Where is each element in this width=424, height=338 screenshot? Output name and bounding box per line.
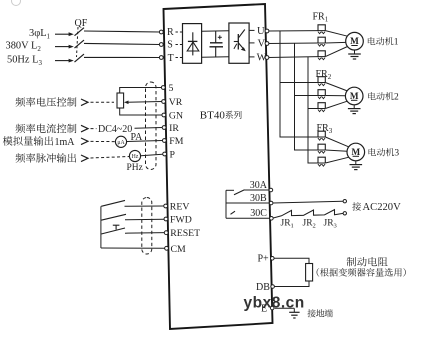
label 接地端 — [307, 309, 332, 317]
wire braking resistor to DB — [274, 281, 309, 287]
svg-text:BT40: BT40 — [200, 109, 226, 121]
svg-text:30A: 30A — [250, 180, 268, 191]
label 模拟量输出1mA — [3, 136, 76, 148]
svg-text:AC220V: AC220V — [363, 202, 402, 213]
svg-text:2: 2 — [394, 93, 399, 103]
wire W branch vertical — [308, 57, 318, 163]
label 电动机2 — [368, 92, 399, 103]
inverter unit BT40 block outline — [164, 4, 273, 329]
overload relay FR2 element phase W — [318, 103, 325, 112]
rectifier diode symbol — [187, 32, 199, 55]
terminal REV — [164, 202, 190, 213]
breaker QF pole 1 + wire to R — [55, 28, 160, 36]
terminal P — [163, 150, 176, 161]
terminal P+ — [271, 257, 275, 261]
svg-text:RESET: RESET — [170, 228, 200, 239]
motor M3 — [347, 143, 365, 161]
dashed line to ammeter PA — [91, 140, 116, 142]
potentiometer wiper to VR — [124, 101, 162, 105]
label BT40系列 — [200, 109, 242, 121]
potentiometer RP — [117, 93, 124, 108]
switch REV — [101, 200, 164, 206]
wire potentiometer bottom to GN — [120, 108, 162, 115]
terminal R — [159, 27, 183, 38]
svg-text:FM: FM — [169, 136, 183, 147]
overload relay FR1 element phase W — [318, 51, 325, 60]
label 接AC220V — [352, 202, 401, 213]
wire W branch to FR2 — [308, 108, 318, 110]
svg-text:M: M — [350, 36, 359, 46]
overload relay FR3 element phase V — [318, 144, 325, 153]
terminal AC220V upper — [343, 200, 346, 203]
wire W phase to FR1 — [268, 56, 318, 59]
terminal FWD — [164, 215, 192, 226]
wire PA to FM — [127, 141, 163, 142]
wire 30C through JR contacts — [273, 210, 343, 218]
terminal IR — [162, 123, 179, 134]
dashed line to DC4~20 — [91, 128, 97, 130]
wire PHz to P — [141, 154, 163, 156]
dashed line to frequency meter PHz — [91, 157, 130, 159]
svg-text:3: 3 — [394, 149, 399, 159]
svg-text:M: M — [350, 91, 359, 101]
terminal RESET — [164, 228, 200, 239]
wire FR1 to motor1 — [325, 31, 347, 57]
svg-text:FR1: FR1 — [313, 12, 329, 24]
svg-text:VR: VR — [169, 97, 183, 108]
ground motor2 — [348, 105, 361, 114]
svg-text:JR1: JR1 — [281, 219, 294, 230]
rectifier bridge box — [183, 24, 202, 64]
svg-text:REV: REV — [170, 202, 190, 213]
IGBT transistor symbol — [234, 30, 246, 52]
svg-text:U: U — [257, 26, 265, 37]
overload relay FR3 element phase U — [318, 131, 325, 140]
wire 30B — [226, 202, 269, 204]
svg-text:GN: GN — [169, 111, 183, 122]
terminal 5 — [161, 83, 173, 94]
ground motor1 — [348, 50, 361, 59]
wire DC bus top — [202, 30, 229, 32]
motor M2 — [345, 87, 363, 105]
earth ground symbol — [289, 308, 299, 318]
terminal GN — [162, 111, 183, 122]
svg-text:1mA: 1mA — [55, 137, 76, 148]
relay contact common bar — [225, 190, 227, 218]
switch FWD — [101, 214, 164, 220]
svg-text:μA: μA — [117, 140, 125, 146]
label 电动机1 — [368, 37, 399, 48]
inverter IGBT box — [229, 23, 249, 63]
label 制动电阻 — [347, 257, 388, 267]
svg-text:P+: P+ — [258, 254, 270, 265]
wire V branch vertical — [295, 43, 319, 150]
overload relay FR2 element phase U — [318, 77, 325, 86]
shielded cable symbol (dashed capsule, logic wires) — [142, 198, 152, 255]
motor M1 — [346, 32, 364, 50]
ammeter PA — [115, 136, 126, 147]
svg-text:ybx8.cn: ybx8.cn — [244, 294, 305, 311]
braking resistor RB — [306, 264, 313, 282]
svg-text:JR3: JR3 — [324, 219, 337, 230]
svg-text:JR2: JR2 — [303, 219, 316, 230]
overload relay FR1 element phase U — [318, 25, 325, 34]
wire terminal5 to potentiometer — [120, 88, 162, 94]
terminal VR — [162, 97, 183, 108]
svg-text:M: M — [351, 147, 360, 157]
svg-text:R: R — [167, 27, 174, 38]
terminal AC220V lower — [343, 212, 346, 215]
svg-text:DC4~20: DC4~20 — [98, 124, 132, 135]
wire P+ to braking resistor — [274, 258, 309, 263]
svg-text:Hz: Hz — [132, 154, 139, 160]
terminal U — [249, 26, 269, 37]
arrow marker for 频率电压控制 — [81, 99, 88, 106]
svg-text:P: P — [170, 150, 176, 161]
arrow marker for 频率电流控制 — [81, 125, 88, 132]
wire U branch vertical — [280, 31, 318, 137]
svg-text:DB: DB — [256, 282, 270, 293]
svg-text:FR3: FR3 — [317, 123, 333, 135]
relay contact 30C tick — [231, 211, 236, 214]
overload relay FR1 element phase V — [318, 37, 325, 46]
breaker QF pole 3 + wire to T — [55, 54, 160, 62]
wire FR2 to motor2 — [325, 83, 347, 109]
wire V branch to FR2 — [295, 95, 319, 97]
terminal 30A — [269, 188, 273, 192]
relay contact 30A blade — [226, 190, 269, 195]
wire V phase to FR1 — [268, 42, 318, 45]
wire U phase to FR1 — [268, 30, 318, 32]
breaker QF mechanical link (dashed) — [77, 27, 79, 57]
terminal V — [249, 38, 269, 49]
decorative faint scan mark (not labeled further) — [12, 0, 21, 6]
svg-text:PHz: PHz — [127, 163, 143, 173]
svg-text:T: T — [168, 53, 174, 64]
terminal W — [249, 52, 269, 63]
terminal FM — [162, 136, 183, 147]
terminal 30B — [269, 201, 273, 205]
label 频率电流控制 — [16, 124, 77, 134]
arrow marker for 频率脉冲输出 — [81, 155, 88, 162]
frequency meter PHz — [129, 150, 140, 161]
wire CM — [101, 247, 165, 249]
wire FR3 to motor3 — [325, 137, 349, 163]
terminal DB — [271, 285, 275, 289]
overload relay FR2 element phase V — [318, 90, 325, 99]
svg-text:30C: 30C — [250, 208, 267, 219]
label 频率电压控制 — [16, 97, 77, 107]
label 电动机3 — [369, 148, 400, 159]
breaker QF pole 2 + wire to S — [55, 40, 160, 48]
terminal T — [159, 53, 183, 64]
pushbutton RESET (T actuator) — [113, 225, 120, 229]
wire E to earth — [275, 307, 295, 309]
switch RESET — [101, 228, 164, 234]
svg-text:50Hz L3: 50Hz L3 — [7, 55, 42, 67]
terminal 30C — [270, 217, 274, 221]
wire 30C — [226, 217, 269, 219]
label 频率脉冲输出 — [16, 153, 77, 163]
svg-text:IR: IR — [169, 123, 179, 134]
common rail for input switches — [100, 206, 102, 248]
svg-text:V: V — [258, 38, 266, 49]
wire DC4~20 to IR — [135, 127, 163, 130]
label （根据变频器容量选用） — [317, 268, 406, 277]
svg-text:30B: 30B — [250, 193, 267, 204]
dashed control line to potentiometer — [91, 101, 115, 103]
overload relay FR3 element phase W — [318, 157, 325, 166]
svg-text:3φL1: 3φL1 — [29, 28, 51, 40]
arrow marker for 模拟量输出 — [81, 138, 88, 145]
svg-text:5: 5 — [169, 83, 174, 94]
wire U branch to FR2 — [280, 82, 318, 84]
svg-text:FWD: FWD — [170, 215, 192, 226]
wire DC bus bottom — [202, 56, 229, 58]
terminal CM — [165, 244, 186, 255]
svg-text:1: 1 — [394, 38, 399, 48]
terminal E — [270, 306, 274, 310]
shielded cable symbol (dashed capsule, analog wires) — [146, 82, 157, 170]
svg-text:QF: QF — [75, 18, 88, 29]
svg-text:S: S — [167, 40, 173, 51]
svg-text:380V L2: 380V L2 — [6, 41, 42, 53]
svg-text:CM: CM — [171, 244, 187, 255]
wire 30B to AC supply — [273, 201, 343, 203]
ground motor3 — [350, 161, 363, 170]
terminal S — [159, 40, 183, 51]
capacitor C (DC link, electrolytic) — [210, 31, 224, 57]
